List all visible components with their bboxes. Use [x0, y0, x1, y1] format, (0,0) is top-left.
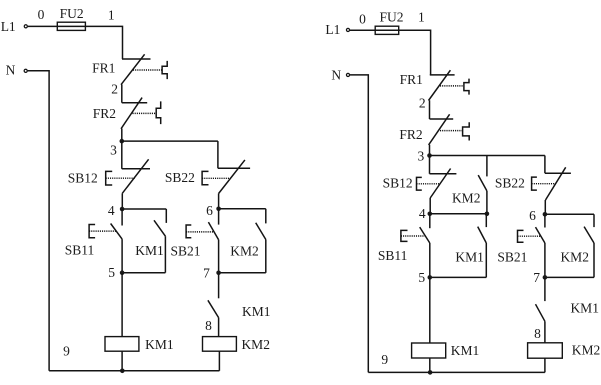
contact KM1 seal-in	[430, 214, 487, 278]
svg-text:FR1: FR1	[92, 60, 115, 75]
svg-text:KM2: KM2	[560, 249, 589, 264]
wire	[429, 358, 431, 372]
coil KM2	[203, 337, 270, 352]
terminal L1	[325, 22, 349, 37]
contact KM1 seal-in	[122, 209, 166, 273]
svg-text:KM2: KM2	[230, 243, 259, 258]
wire	[430, 213, 487, 215]
pushbutton SB12	[68, 141, 150, 209]
junction	[120, 369, 125, 374]
svg-text:SB12: SB12	[68, 170, 98, 185]
thermal relay contact FR1	[400, 70, 469, 100]
fuse FU2	[375, 9, 403, 34]
coil KM2	[528, 343, 601, 359]
wire	[121, 129, 123, 142]
svg-text:FR2: FR2	[399, 127, 422, 142]
svg-text:SB11: SB11	[65, 243, 95, 258]
pushbutton SB21	[497, 214, 545, 277]
svg-text:FR2: FR2	[93, 106, 116, 121]
svg-text:SB21: SB21	[497, 250, 527, 265]
wire	[219, 208, 266, 210]
pushbutton SB12	[383, 156, 457, 214]
terminal L1	[1, 19, 28, 34]
svg-text:2: 2	[419, 95, 426, 110]
svg-text:L1: L1	[325, 22, 340, 37]
junction	[485, 212, 490, 217]
wire	[121, 85, 123, 103]
coil KM1	[105, 337, 174, 352]
svg-text:1: 1	[108, 8, 115, 23]
node 6	[206, 203, 221, 218]
node 7	[533, 270, 547, 285]
wire	[544, 358, 546, 372]
wire	[122, 208, 166, 210]
wire	[28, 25, 58, 27]
svg-text:7: 7	[203, 266, 210, 281]
wire	[399, 30, 431, 75]
svg-text:KM1: KM1	[135, 243, 164, 258]
coil KM1	[412, 343, 480, 358]
wire	[218, 351, 220, 371]
svg-text:SB12: SB12	[383, 176, 413, 191]
node 5	[108, 265, 124, 280]
terminal N	[331, 67, 349, 82]
svg-text:0: 0	[38, 7, 45, 22]
wire	[121, 351, 123, 371]
pushbutton SB21	[170, 209, 218, 273]
pushbutton SB22	[165, 160, 250, 209]
contact KM2 parallel-start	[452, 156, 487, 214]
contact KM2 seal-in	[219, 209, 266, 273]
svg-text:7: 7	[533, 270, 540, 285]
wire	[430, 155, 545, 157]
svg-text:3: 3	[110, 143, 117, 158]
svg-text:1: 1	[418, 10, 425, 25]
node 3	[110, 139, 124, 158]
node 4	[419, 206, 432, 221]
svg-text:SB11: SB11	[378, 248, 408, 263]
svg-text:3: 3	[418, 149, 425, 164]
svg-text:KM1: KM1	[242, 304, 271, 319]
wire	[122, 140, 218, 142]
fuse FU2	[57, 6, 85, 30]
svg-text:SB21: SB21	[170, 243, 200, 258]
svg-text:KM2: KM2	[241, 337, 270, 352]
node 4	[108, 203, 124, 218]
svg-text:5: 5	[108, 265, 115, 280]
wire	[429, 145, 431, 156]
thermal relay contact FR2	[93, 98, 161, 129]
pushbutton SB11	[378, 214, 430, 278]
thermal relay contact FR2	[399, 114, 469, 145]
svg-text:9: 9	[381, 352, 388, 367]
svg-text:0: 0	[359, 11, 366, 26]
svg-text:SB22: SB22	[495, 175, 525, 190]
node 5	[418, 270, 432, 285]
node 3	[418, 149, 432, 164]
wire	[217, 141, 219, 168]
svg-text:N: N	[331, 67, 341, 82]
pushbutton SB22	[495, 167, 571, 214]
svg-text:FU2: FU2	[379, 9, 403, 24]
svg-text:5: 5	[418, 270, 425, 285]
svg-text:KM1: KM1	[451, 343, 480, 358]
wire	[121, 273, 123, 337]
svg-text:KM1: KM1	[455, 249, 484, 264]
svg-text:2: 2	[111, 82, 118, 97]
wire	[28, 71, 49, 371]
terminal N	[6, 62, 28, 77]
wire	[429, 100, 431, 119]
contact KM1 interlock	[208, 273, 271, 337]
svg-text:L1: L1	[1, 19, 16, 34]
svg-text:8: 8	[534, 326, 541, 341]
pushbutton SB11	[65, 209, 122, 273]
wire	[85, 26, 122, 59]
svg-text:N: N	[6, 62, 16, 77]
wire	[350, 29, 375, 31]
svg-text:8: 8	[205, 318, 212, 333]
wire	[429, 277, 431, 343]
wire	[350, 75, 368, 373]
svg-text:FU2: FU2	[60, 6, 84, 21]
junction	[428, 370, 433, 375]
svg-text:4: 4	[108, 203, 115, 218]
svg-text:4: 4	[419, 206, 426, 221]
svg-text:KM2: KM2	[452, 190, 481, 205]
svg-text:9: 9	[63, 344, 70, 359]
svg-text:KM1: KM1	[145, 337, 174, 352]
svg-text:SB22: SB22	[165, 170, 195, 185]
contact KM2 seal-in	[545, 214, 594, 277]
wire	[49, 370, 219, 372]
svg-text:FR1: FR1	[400, 72, 423, 87]
svg-text:6: 6	[206, 203, 213, 218]
node 7	[203, 266, 221, 281]
node 6	[529, 208, 547, 223]
contact KM1 interlock	[536, 277, 599, 342]
thermal relay contact FR1	[92, 54, 167, 84]
svg-text:KM1: KM1	[570, 301, 599, 316]
wire	[545, 213, 594, 215]
wire	[368, 371, 545, 373]
svg-text:KM2: KM2	[572, 343, 601, 358]
svg-text:6: 6	[529, 208, 536, 223]
wire	[544, 156, 546, 174]
